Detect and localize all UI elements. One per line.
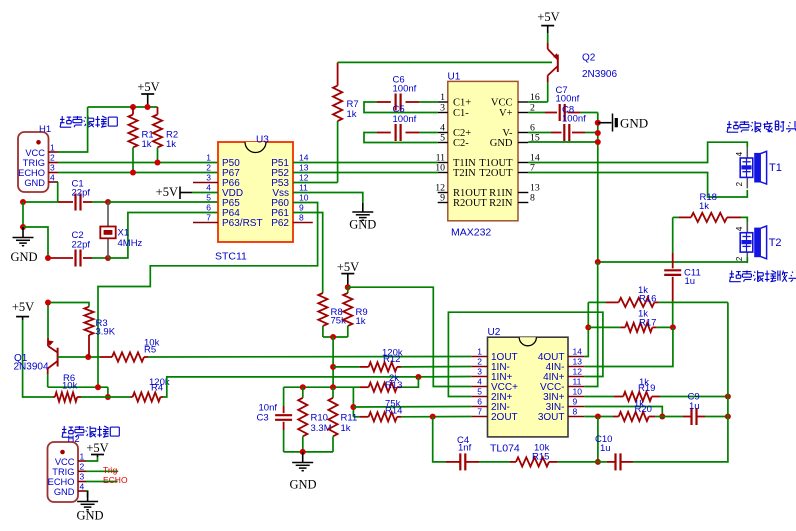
svg-text:1k: 1k [356,316,366,327]
wire P51 row to U1 T1IN [293,162,438,164]
svg-text:2: 2 [735,256,744,261]
svg-text:R13: R13 [385,380,402,391]
svg-text:P63/RST: P63/RST [222,218,263,229]
wire R5 to U2 1OUT [148,356,471,359]
IC U3 STC11 body [218,142,293,242]
svg-text:C1-: C1- [453,108,469,119]
connector H2 ultrasonic interface box [48,442,79,502]
svg-text:R2OUT: R2OUT [453,198,487,209]
svg-text:2: 2 [80,462,85,472]
junction dot C10 row [595,459,601,465]
svg-text:R12: R12 [383,354,400,365]
resistor R5 [100,356,112,358]
H2 pin stubs [78,460,86,462]
svg-text:13: 13 [299,163,309,173]
junction dot R10 top [300,384,306,390]
wire VCC- to GND column [584,262,597,387]
U1 pin stubs right [518,101,528,103]
svg-text:1: 1 [206,153,211,163]
svg-text:11: 11 [299,183,308,193]
wire 3OUT down to C10 [597,417,599,462]
wire H2 pin3 ECHO [86,481,118,483]
wire jog to R6 row [107,387,109,397]
resistor R2 [157,107,159,115]
transistor Q2 2N3906 [547,33,549,43]
svg-text:C2-: C2- [453,138,469,149]
wire GND arm right [23,227,48,258]
svg-text:3OUT: 3OUT [538,412,565,423]
junction dot R3 arm [45,300,51,306]
wire +5V to R6 [23,320,53,397]
svg-text:ECHO: ECHO [103,475,128,485]
U2 pin stubs left [471,356,487,358]
junction dot C4 arm [430,414,436,420]
junction dots GND column [595,120,601,126]
svg-text:2: 2 [206,163,211,173]
wire H2 pin4 to GND [86,491,88,497]
junction dot R11 top [330,384,336,390]
svg-text:VCC: VCC [25,148,45,158]
wire ECHO row H1 to U3 P67 [58,172,218,174]
svg-text:1: 1 [50,143,55,153]
junction dot R2 bottom [155,160,161,166]
IC U1 MAX232 body [448,81,518,220]
svg-text:8: 8 [530,193,535,204]
junction dots right column [725,394,731,400]
transducer T2 ultrasonic receiver [746,222,748,233]
svg-text:2N3906: 2N3906 [582,69,617,80]
junction dot R12 left [330,364,336,370]
capacitor C9 [662,416,683,418]
resistor R17 [588,326,620,328]
svg-text:8: 8 [299,213,304,223]
svg-text:13: 13 [573,357,583,367]
svg-text:T2OUT: T2OUT [479,168,513,179]
svg-text:Q2: Q2 [582,53,596,64]
svg-text:10: 10 [299,193,309,203]
svg-text:3: 3 [477,367,482,377]
junction dot T2 row [595,259,601,265]
svg-text:6: 6 [206,203,211,213]
resistor R20 [584,416,613,418]
svg-text:MAX232: MAX232 [451,227,491,239]
resistor R3 [48,303,89,307]
svg-text:H2: H2 [68,434,80,445]
svg-text:R2IN: R2IN [489,198,513,209]
wire C1 row [23,201,58,203]
svg-text:U1: U1 [448,72,461,83]
svg-text:4: 4 [735,226,744,231]
resistor R7 [337,121,339,183]
resistor R11 [332,387,334,398]
ground GND symbol below U3 [362,203,364,212]
svg-text:ECHO: ECHO [48,477,75,487]
svg-text:14: 14 [573,347,583,357]
resistor R10 [302,387,304,398]
wire right column down to C10 row [633,302,728,462]
capacitor C2 [48,257,73,259]
svg-text:1u: 1u [600,443,611,454]
resistor R18 [673,216,679,218]
svg-text:2OUT: 2OUT [491,412,518,423]
svg-text:GND: GND [620,116,648,131]
junction dot R17 left [585,324,591,330]
wire Vss to ground [293,193,363,204]
svg-text:+5V: +5V [537,10,559,24]
resistor R15 [558,461,598,463]
wire R8 R9 bottoms join [323,336,348,338]
svg-text:GND: GND [289,478,316,492]
svg-text:1nf: 1nf [458,443,472,454]
svg-text:1: 1 [477,347,482,357]
junction dot 3OUT C10 arm [595,414,601,420]
svg-text:1k: 1k [699,201,709,212]
ground GND bar symbol right [598,122,612,124]
svg-text:GND: GND [10,250,37,264]
wire R7 top to Q2 base [338,61,552,63]
U2 pin stubs right [568,356,584,358]
svg-text:U2: U2 [488,327,501,338]
junction dot R8R9 [330,334,336,340]
connector H1 ultrasonic interface box [18,132,49,192]
svg-text:Trig: Trig [103,465,118,475]
wire +5V rail to U2 VCC+ [348,287,472,386]
svg-text:TRIG: TRIG [52,467,74,477]
svg-text:10: 10 [573,387,583,397]
label ultrasonic receiver CJK [730,271,741,282]
ground GND symbol bottom mid [302,452,304,462]
junction dot GND arm [20,224,26,230]
wire T2OUT to T1 bottom [528,173,747,198]
capacitor C1 [58,201,73,203]
svg-text:GND: GND [349,218,376,232]
svg-text:8: 8 [573,407,578,417]
svg-text:3.9K: 3.9K [96,327,116,338]
capacitor C10 [598,461,607,463]
svg-text:1k: 1k [142,139,152,150]
svg-text:4: 4 [477,377,482,387]
svg-text:R14: R14 [385,406,402,417]
svg-text:GND: GND [490,138,513,149]
junction dot C1 left [20,199,26,205]
resistor R6 [53,396,55,398]
wire R4 step up to U2 1IN+ [163,377,471,398]
transducer T1 ultrasonic transmitter [746,147,748,158]
svg-text:2: 2 [477,357,482,367]
resistor R13 [353,386,359,388]
svg-text:5: 5 [477,387,482,397]
svg-text:100nf: 100nf [393,114,417,125]
wire H1 pin1 VCC to +5V rail [58,107,88,152]
svg-text:R5: R5 [144,345,156,356]
svg-text:ECHO: ECHO [18,168,45,178]
junction dot ground rail [300,449,306,455]
svg-text:1u: 1u [685,276,696,287]
svg-text:+5V: +5V [337,260,359,274]
IC U2 TL074 body [488,337,569,437]
svg-text:H1: H1 [39,124,51,135]
junction dot P60 join [95,384,101,390]
junction dot R17 right [670,324,676,330]
junction dots +5V rail [130,104,136,110]
svg-text:2N3904: 2N3904 [14,362,49,373]
svg-text:STC11: STC11 [215,251,247,263]
svg-text:T2IN: T2IN [453,168,476,179]
wire 3IN- arm [584,407,662,417]
svg-text:2: 2 [735,181,744,186]
svg-text:100nf: 100nf [393,84,417,95]
svg-text:5: 5 [206,193,211,203]
svg-text:4: 4 [80,481,85,491]
svg-text:1k: 1k [166,139,176,150]
wire column to R12 and R11 [332,337,334,387]
svg-text:10k: 10k [62,381,78,392]
wire 4OUT column [584,302,588,356]
transistor Q1 2N3904 [47,303,49,339]
wire R13 left down column [352,387,354,417]
svg-text:1k: 1k [347,109,357,120]
junction dot C2 left [45,255,51,261]
resistor R16 [588,301,606,303]
svg-text:+5V: +5V [156,185,178,199]
wire TRIG row H1 to U3 P50 [58,162,218,164]
svg-text:C1+: C1+ [453,98,471,109]
svg-text:11: 11 [573,377,582,387]
wire left GND column [22,202,24,227]
svg-text:6: 6 [477,397,482,407]
wire +5V rail top-left [88,106,158,108]
capacitor C4 [433,417,446,462]
label ultrasonic transmitter CJK [727,121,738,132]
label ultrasonic interface CJK H2 [62,426,73,437]
svg-text:GND: GND [54,487,75,497]
svg-text:22pf: 22pf [72,188,91,199]
capacitor C11 [672,217,674,253]
svg-text:T1: T1 [769,162,782,174]
svg-text:R19: R19 [638,383,655,394]
resistor R1 [132,107,134,115]
wire GND column right of U1 [597,113,599,263]
junction dot R13 arm on 1IN+ row [415,374,421,380]
wire P61 to R8 top [293,213,323,294]
junction dot C1 right [105,199,111,205]
junction dot R6 row [105,394,111,400]
svg-text:7: 7 [477,407,482,417]
svg-text:R16: R16 [639,294,656,305]
svg-text:+5V: +5V [86,441,108,455]
wire H2 pin1 to +5V [86,457,98,461]
svg-text:12: 12 [299,173,309,183]
svg-text:22pf: 22pf [72,240,91,251]
resistor R14 [353,416,359,418]
wire H2 pin2 Trig [86,470,118,472]
label ultrasonic interface CJK H1 [60,116,71,127]
svg-text:C3: C3 [257,413,269,424]
ground GND symbol at H2 [87,491,89,501]
capacitor C3 [283,387,285,406]
svg-text:R15: R15 [532,452,549,463]
wire H1 pin4 GND down [57,182,59,202]
wire 4IN- row [584,327,673,366]
svg-text:V+: V+ [499,108,513,119]
wire T2 bottom to GND row [746,257,748,262]
junction dot C2 right [105,255,111,261]
svg-text:14: 14 [299,153,309,163]
wire U1 VCC pin16 to Q2 collector [528,101,547,103]
wire Q1 base row [58,356,100,358]
wire V- row with capacitor C8 [528,132,551,134]
wire U1 GND pin15 row [528,141,598,143]
svg-text:4: 4 [50,173,55,183]
svg-text:R10: R10 [311,413,328,424]
junction dot R1 bottom [130,170,136,176]
svg-text:1k: 1k [341,423,351,434]
H1 pin stubs [48,151,58,153]
svg-text:100nf: 100nf [556,94,580,105]
wire ground rail bottom mid [284,451,333,453]
resistor R9 [347,287,349,293]
wire 2IN- row to U2 pin6 [353,406,471,409]
svg-text:R17: R17 [639,318,656,329]
wire C2 right to U3 P64 [108,213,218,259]
resistor R4 [131,396,133,398]
svg-text:3: 3 [80,472,85,482]
junction dot 2IN- row [350,404,356,410]
svg-text:2: 2 [50,153,55,163]
svg-text:GND: GND [24,178,45,188]
junction dot +5V mid [345,284,351,290]
svg-text:4: 4 [735,151,744,156]
svg-text:1u: 1u [689,401,700,412]
ground GND symbol left [22,227,24,237]
svg-text:9: 9 [299,203,304,213]
wire T1OUT to T1 top [528,142,747,162]
svg-text:9: 9 [573,397,578,407]
svg-text:4MHz: 4MHz [118,238,143,249]
svg-text:3: 3 [50,163,55,173]
svg-text:T2: T2 [769,237,782,249]
svg-text:R11: R11 [341,413,358,424]
wire P52 row to U1 T2IN [293,172,438,174]
wire R2 bottom to P50 row [157,148,159,163]
svg-text:R20: R20 [635,404,652,415]
svg-text:12: 12 [573,367,583,377]
capacitor C6 loop [364,102,438,113]
svg-text:VCC: VCC [491,98,513,109]
svg-text:4: 4 [206,183,211,193]
junction dot R20 right [659,414,665,420]
svg-text:3: 3 [206,173,211,183]
wire P60 staircase down-left [98,203,318,388]
svg-text:+5V: +5V [137,80,159,94]
svg-text:VCC: VCC [55,457,75,467]
crystal X1 [107,202,109,226]
resistor R19 [584,396,614,398]
svg-text:GND: GND [76,509,103,523]
svg-text:1: 1 [80,452,85,462]
svg-text:7: 7 [206,213,211,223]
wire P53 to R7 bottom [293,182,338,184]
wire V+ row with capacitor C7 [528,112,545,114]
wire Q1 collector row [48,386,108,388]
resistor R8 [318,293,327,326]
svg-text:100nf: 100nf [562,114,586,125]
junction dot base row [85,354,91,360]
svg-text:X1: X1 [118,228,130,239]
svg-text:+5V: +5V [12,300,34,314]
wire 2IN+ bias row [448,312,603,396]
U3 unconnected pin stubs [193,182,218,184]
resistor R12 [333,366,360,368]
svg-text:TRIG: TRIG [23,158,45,168]
svg-text:U3: U3 [256,135,269,146]
svg-text:R4: R4 [151,383,163,394]
U1 pin stubs left [438,101,448,103]
wire row387 right segment [284,386,354,388]
wire C1 right to U3 P65 [108,201,218,203]
svg-text:TL074: TL074 [490,443,520,455]
svg-text:P62: P62 [271,218,289,229]
capacitor C5 loop [364,133,438,143]
